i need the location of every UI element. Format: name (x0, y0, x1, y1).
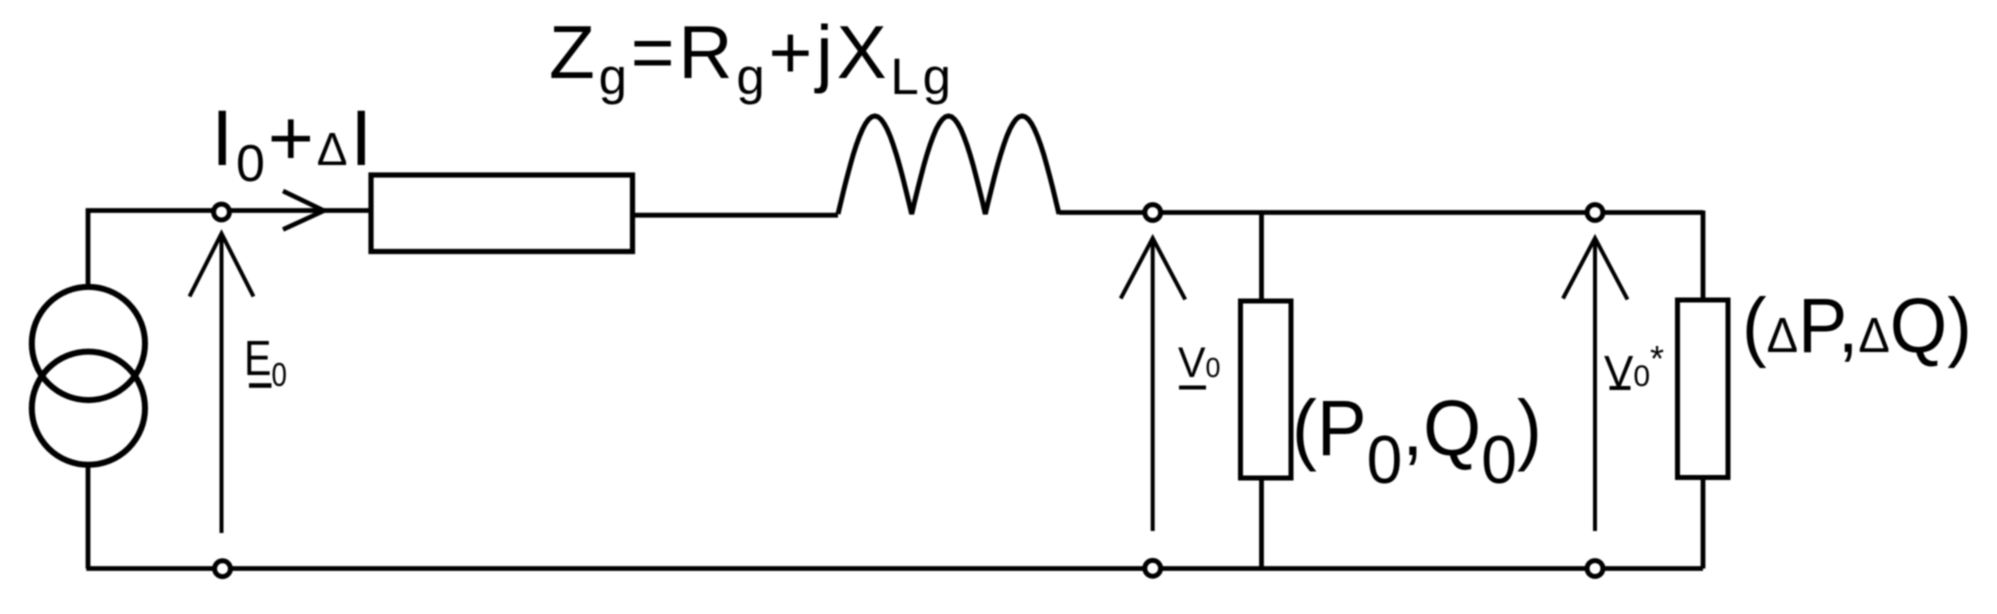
node bottom B (1145, 560, 1161, 576)
current arrow I0+dI (283, 191, 324, 230)
arrow V0 (1121, 238, 1186, 531)
wire resistor to inductor (633, 213, 839, 218)
node top A (214, 204, 230, 220)
arrow V0* (1563, 238, 1628, 531)
label Zg=Rg+jXLg (549, 15, 955, 102)
underline of E0 (249, 383, 272, 388)
wire load 1 branch bottom (1259, 478, 1264, 569)
load 2 (dP,dQ) body (1678, 300, 1729, 478)
label (dP,dQ) (1742, 288, 1972, 365)
node top C (1587, 205, 1603, 221)
wire inductor to top-right corner (1059, 210, 1703, 215)
wire source bottom to bottom rail (86, 466, 91, 569)
label (P0,Q0) (1292, 388, 1542, 494)
underline of V0* (1610, 386, 1631, 390)
wire top-left: from source up and right to resistor (88, 211, 371, 288)
underline of V0 (1179, 386, 1206, 390)
wire bottom rail (86, 566, 1703, 571)
arrow E0 (190, 234, 254, 534)
AC source U1 circle 1 (32, 287, 145, 400)
wire load 2 bottom to bottom rail (1701, 478, 1706, 569)
node bottom C (1587, 561, 1603, 577)
label V0 (1178, 342, 1220, 385)
inductor XLg (838, 116, 1059, 214)
AC source U1 circle 2 (32, 352, 145, 465)
node top B (1145, 205, 1161, 221)
label I0+dI (211, 98, 375, 190)
wire load 1 branch top (1259, 211, 1264, 302)
wire top-right corner down to load 2 (1701, 211, 1706, 301)
label V0* (1604, 341, 1664, 394)
label E0 (244, 335, 287, 391)
node bottom A (215, 561, 231, 577)
resistor Zg body (371, 175, 633, 252)
load 1 (P0,Q0) body (1241, 301, 1292, 478)
